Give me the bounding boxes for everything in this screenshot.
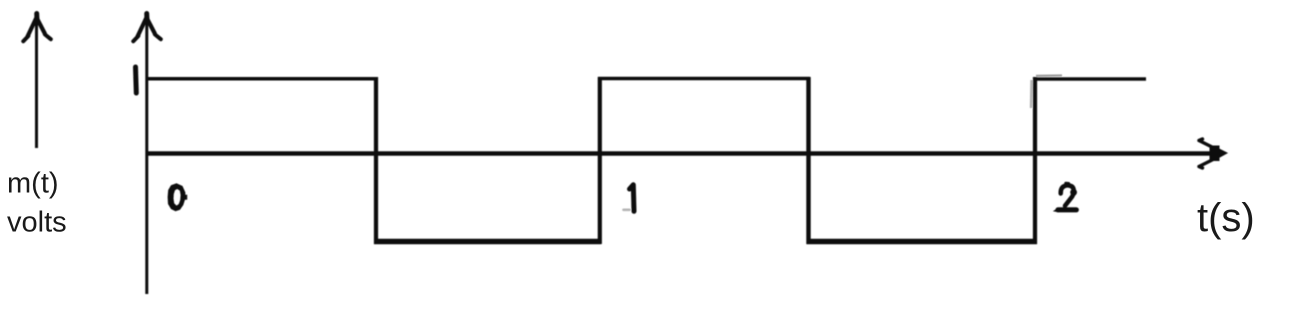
tick digit 2 top nub (1066, 182, 1068, 186)
svg-text:t(s): t(s) (1197, 196, 1255, 240)
scan artifact gray smudge on rising edge 2 (1030, 80, 1033, 108)
tick digit 1 (630, 185, 635, 212)
tick digit 2 base (1058, 207, 1076, 212)
waveform high segment 3 (1033, 77, 1146, 80)
t axis arrow upper barb (1199, 139, 1212, 147)
level-1 tick label on axis (133, 67, 139, 93)
tick digit 2 right blob (1070, 189, 1077, 196)
waveform rising edge 1 (598, 77, 602, 244)
tick digit 1 base smudge (624, 209, 630, 212)
waveform high segment 2 (598, 77, 810, 81)
vertical axis arrow head (133, 14, 161, 42)
vertical axis (145, 18, 148, 294)
waveform high segment 1 (147, 77, 377, 81)
svg-text:volts: volts (7, 207, 67, 239)
t axis arrow head wedge (1210, 146, 1227, 161)
waveform low segment 1 (374, 239, 601, 245)
tick digit 2 base left wedge (1053, 208, 1059, 213)
scan artifact gray line above high segment 3 (1036, 74, 1062, 76)
waveform low segment 2 (807, 239, 1038, 245)
m(t) axis arrow head (23, 14, 51, 42)
t axis (146, 151, 1214, 156)
tick digit 0 right nub (184, 195, 188, 200)
waveform falling edge 1 (374, 77, 378, 244)
waveform falling edge 2 (806, 77, 810, 244)
tick digit 2 curve (1061, 185, 1074, 205)
svg-text:m(t): m(t) (7, 168, 59, 200)
m(t) axis arrow stem (35, 18, 38, 148)
t axis arrow lower barb (1199, 160, 1212, 168)
tick digit 0 (168, 183, 186, 211)
waveform rising edge 2 (1033, 77, 1037, 244)
